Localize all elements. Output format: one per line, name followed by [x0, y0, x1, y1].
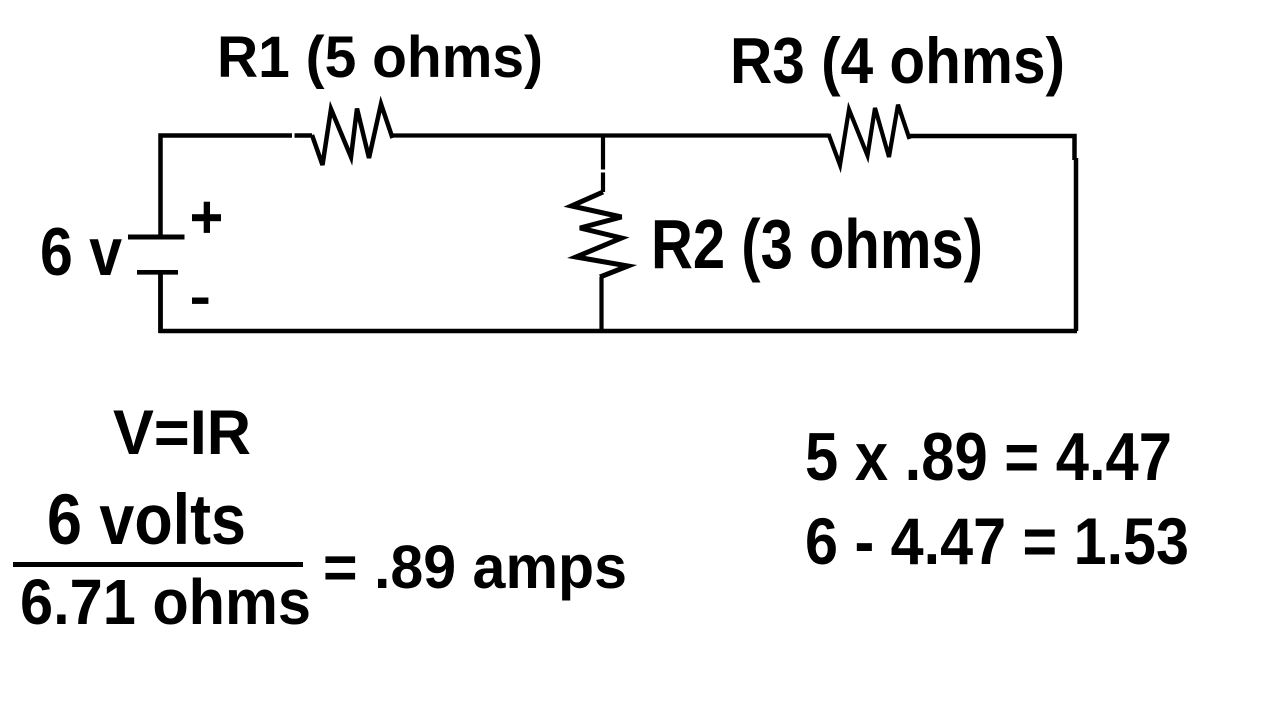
wire top right and right side	[909, 136, 1076, 331]
svg-text:6 volts: 6 volts	[47, 481, 246, 560]
svg-text:V=IR: V=IR	[113, 398, 251, 468]
wire middle branch upper	[601, 134, 605, 193]
wire left-and-top segment	[161, 136, 313, 237]
battery polarity plus sign	[192, 202, 221, 233]
svg-text:= .89 amps: = .89 amps	[323, 533, 627, 601]
svg-text:R1 (5 ohms): R1 (5 ohms)	[217, 25, 543, 90]
battery V1 positive plate	[128, 235, 185, 240]
node junction of bottom wire and R2 branch	[600, 329, 604, 333]
wire break artifact top	[292, 131, 295, 140]
battery V1 negative plate	[137, 270, 178, 275]
wire break artifact middle branch	[599, 170, 607, 173]
wire bottom segment	[159, 329, 1077, 334]
wire battery negative to bottom	[158, 273, 163, 334]
fraction bar	[13, 562, 303, 567]
resistor R3	[829, 105, 910, 165]
battery polarity minus sign	[192, 298, 208, 304]
svg-text:R3 (4 ohms): R3 (4 ohms)	[730, 24, 1065, 97]
svg-text:5 x .89 = 4.47: 5 x .89 = 4.47	[805, 419, 1172, 495]
wire middle branch lower	[599, 277, 603, 333]
svg-text:6.71 ohms: 6.71 ohms	[20, 566, 311, 638]
svg-text:6 - 4.47 = 1.53: 6 - 4.47 = 1.53	[805, 504, 1189, 578]
svg-text:6 v: 6 v	[40, 214, 122, 290]
svg-text:R2 (3 ohms): R2 (3 ohms)	[651, 205, 983, 283]
wire top middle segment	[392, 133, 829, 137]
resistor R2	[572, 192, 629, 277]
resistor R1	[312, 104, 393, 165]
node junction of R1-R3 wire and R2 branch	[601, 134, 605, 138]
